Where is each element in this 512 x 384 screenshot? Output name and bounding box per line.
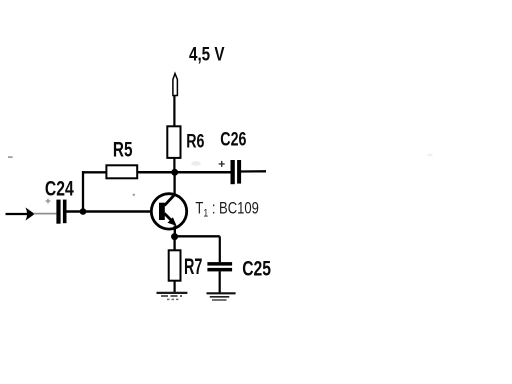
svg-text:4,5 V: 4,5 V bbox=[189, 42, 225, 64]
svg-text:R6: R6 bbox=[186, 130, 204, 152]
svg-text:R7: R7 bbox=[184, 255, 202, 280]
svg-text:C24: C24 bbox=[45, 176, 74, 200]
svg-text:C26: C26 bbox=[220, 128, 246, 150]
svg-text:C25: C25 bbox=[242, 256, 271, 280]
svg-text:R5: R5 bbox=[113, 137, 133, 161]
